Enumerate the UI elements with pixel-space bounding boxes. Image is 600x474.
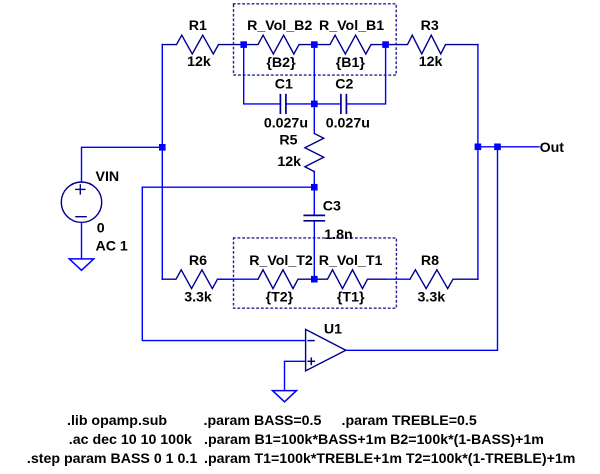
wire op-amp noninverting input to ground (285, 361, 306, 390)
wire R5 bottom lead (313, 172, 315, 188)
svg-text:R5: R5 (279, 133, 297, 149)
svg-text:1.8n: 1.8n (324, 227, 352, 243)
wire C1 left branch (244, 45, 281, 104)
junction dot (B1 / R3 / C2 node) (382, 41, 389, 48)
spice directive .ac (69, 432, 192, 448)
svg-text:AC 1: AC 1 (96, 238, 128, 254)
wire VIN to left column (82, 147, 163, 182)
resistor R5 (277, 133, 323, 172)
svg-text:{T2}: {T2} (266, 289, 294, 305)
wire C1 to center (286, 103, 314, 105)
svg-text:0.027u: 0.027u (326, 115, 370, 131)
svg-text:12k: 12k (277, 154, 301, 170)
svg-text:R_Vol_T1: R_Vol_T1 (319, 253, 383, 269)
svg-text:C3: C3 (323, 199, 341, 215)
resistor R_Vol_B2 (244, 18, 315, 71)
svg-text:.lib opamp.sub: .lib opamp.sub (67, 413, 167, 429)
op-amp U1 (306, 322, 346, 371)
wire op-amp output to Out node (346, 147, 498, 350)
wire center column top (B pot wiper to cap row) (313, 45, 315, 104)
svg-text:R_Vol_T2: R_Vol_T2 (249, 253, 313, 269)
spice directive .step (27, 451, 197, 467)
svg-text:Out: Out (540, 140, 565, 156)
svg-text:3.3k: 3.3k (184, 289, 212, 305)
wire R_Vol_T1 to R8 (385, 278, 410, 280)
wire right vertical (R3/R8 column) (477, 45, 479, 280)
svg-text:.step param BASS 0 1 0.1: .step param BASS 0 1 0.1 (27, 451, 197, 467)
junction dot (B2 / B1 wiper node) (311, 41, 318, 48)
svg-text:12k: 12k (419, 54, 443, 70)
node Out (net flag) (540, 140, 565, 156)
wire feedback vertical to op-amp inverting input (142, 187, 305, 340)
wire C3 to bottom row (313, 221, 315, 279)
wire left vertical (input column) (161, 45, 163, 280)
svg-text:12k: 12k (187, 54, 211, 70)
svg-text:{T1}: {T1} (337, 289, 365, 305)
wire mid horizontal (R5/C3 node to feedback column) (142, 186, 314, 188)
svg-text:R1: R1 (189, 18, 207, 34)
spice directive .param B1 B2 (204, 432, 544, 448)
annotation box treble (dashed) (234, 238, 397, 308)
wire node to C3 (313, 187, 315, 215)
ground (below op-amp + input) (273, 391, 297, 402)
svg-text:0.027u: 0.027u (264, 115, 308, 131)
junction dot (right column / Out) (475, 144, 482, 151)
svg-text:0: 0 (97, 221, 105, 237)
svg-text:.param B1=100k*BASS+1m B2=100k: .param B1=100k*BASS+1m B2=100k*(1-BASS)+… (204, 432, 544, 448)
spice directive .param BASS (204, 413, 322, 429)
junction dot (cap row center) (311, 101, 318, 108)
junction dot (R5 / C3 / feedback) (311, 184, 318, 191)
junction dot (op-amp output column / Out) (494, 144, 501, 151)
annotation box bass (dashed) (234, 4, 397, 75)
voltage source VIN (61, 169, 128, 254)
svg-text:.ac dec 10 10 100k: .ac dec 10 10 100k (69, 432, 192, 448)
svg-text:{B2}: {B2} (266, 55, 296, 71)
resistor R6 (162, 253, 233, 305)
svg-text:.param BASS=0.5: .param BASS=0.5 (204, 413, 322, 429)
resistor R_Vol_B1 (314, 18, 385, 71)
junction dot (T2 / T1 wiper node) (311, 276, 318, 283)
resistor R_Vol_T2 (249, 253, 314, 305)
spice directive .lib (67, 413, 167, 429)
svg-text:{B1}: {B1} (336, 55, 366, 71)
svg-text:3.3k: 3.3k (417, 289, 445, 305)
spice directive .param T1 T2 (204, 451, 575, 467)
resistor R8 (410, 253, 478, 305)
ground (below VIN) (69, 259, 93, 270)
svg-text:C2: C2 (335, 76, 353, 92)
junction dot (R1 / B2 / C1 node) (240, 41, 247, 48)
junction dot (VIN / left column) (159, 144, 166, 151)
svg-text:R3: R3 (421, 18, 439, 34)
svg-text:R_Vol_B1: R_Vol_B1 (319, 18, 384, 34)
svg-text:.param T1=100k*TREBLE+1m T2=10: .param T1=100k*TREBLE+1m T2=100k*(1-TREB… (204, 451, 575, 467)
svg-text:U1: U1 (324, 322, 342, 338)
wire VIN bottom to ground (81, 223, 83, 259)
capacitor C2 (326, 76, 370, 131)
wire R6 to R_Vol_T2 (218, 278, 259, 280)
wire out stub (478, 146, 539, 148)
wire center to C2 (314, 103, 341, 105)
svg-text:.param TREBLE=0.5: .param TREBLE=0.5 (342, 413, 477, 429)
resistor R3 (386, 18, 478, 70)
wire C2 right branch (346, 45, 385, 104)
svg-text:C1: C1 (275, 76, 293, 92)
svg-text:R6: R6 (189, 253, 207, 269)
svg-text:VIN: VIN (96, 169, 120, 185)
resistor R_Vol_T1 (314, 253, 385, 305)
resistor R1 (162, 18, 243, 70)
capacitor C1 (264, 76, 308, 131)
svg-text:R_Vol_B2: R_Vol_B2 (247, 18, 312, 34)
spice directive .param TREBLE (342, 413, 477, 429)
wire cap row to R5 (313, 104, 315, 134)
capacitor C3 (304, 199, 352, 243)
svg-text:R8: R8 (421, 253, 439, 269)
